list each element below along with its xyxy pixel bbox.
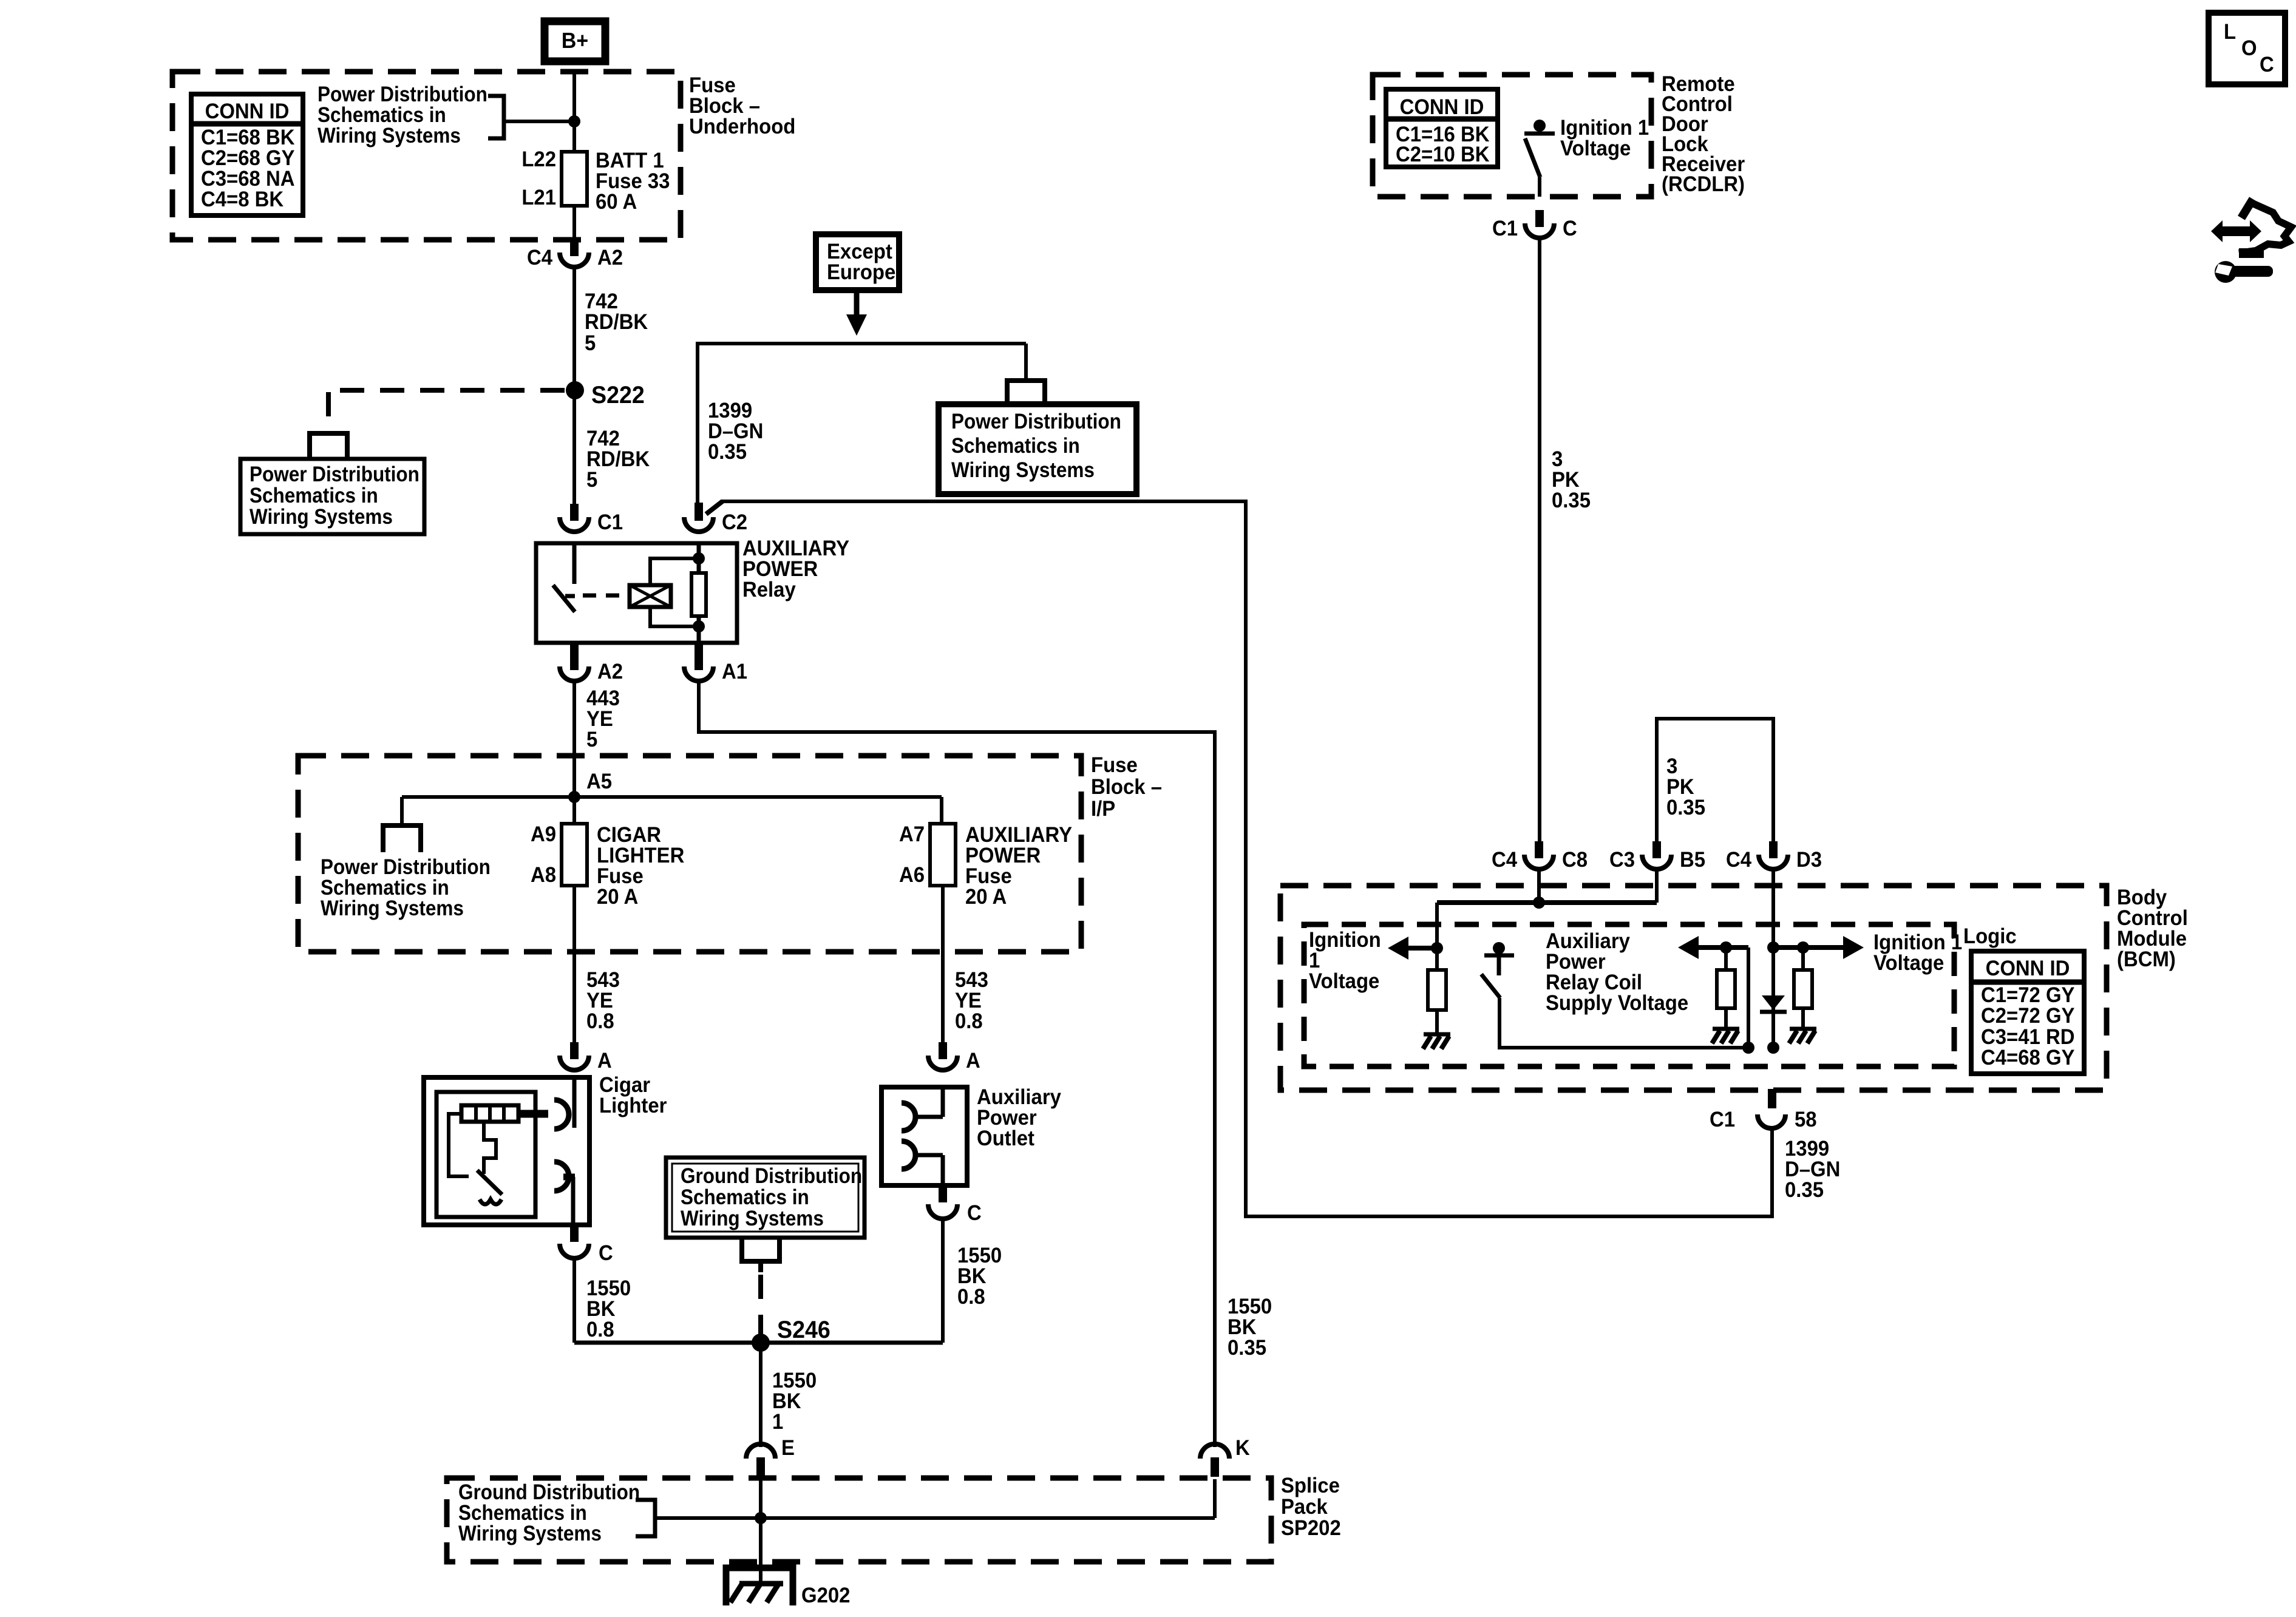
svg-text:Wiring Systems: Wiring Systems (458, 1522, 602, 1546)
BCM label (2117, 886, 2188, 971)
relay coil box (630, 585, 671, 607)
note power distribution box (mid) (939, 404, 1136, 494)
wire 3 PK loop (1657, 719, 1773, 845)
RCDLR label (1662, 72, 1745, 196)
BCM label ignition 1 voltage (left) (1309, 928, 1381, 993)
fuse CIGAR LIGHTER (531, 797, 684, 909)
svg-text:Supply Voltage: Supply Voltage (1546, 991, 1688, 1015)
label 1399 D-GN 0.35 (BCM) (1785, 1137, 1840, 1202)
svg-text:C: C (967, 1201, 982, 1225)
BCM resistor 3 (1794, 947, 1812, 1028)
BCM dashed box (1280, 886, 2107, 1090)
connector table CONN ID (underhood) (191, 94, 303, 215)
svg-text:Voltage: Voltage (1309, 969, 1379, 993)
connector table CONN ID (RCDLR) (1386, 89, 1498, 167)
connector K (1200, 1436, 1250, 1477)
BCM arrow coil supply (left) (1678, 936, 1754, 1054)
splice pack internal wires (655, 1479, 1215, 1524)
BCM ignition bus (1437, 870, 1657, 948)
BCM resistor 2 (1717, 947, 1735, 1028)
svg-text:C1: C1 (1710, 1108, 1735, 1131)
svg-text:A7: A7 (899, 822, 925, 846)
svg-text:Schematics in: Schematics in (951, 435, 1080, 458)
power node B+ (545, 21, 605, 61)
svg-text:Logic: Logic (1963, 924, 2017, 948)
wire 543 YE left (572, 886, 576, 1045)
dashed wire to S246 (758, 1275, 763, 1338)
svg-text:Splice: Splice (1281, 1474, 1340, 1497)
BCM logic label (1963, 924, 2017, 948)
svg-text:Schematics in: Schematics in (681, 1186, 809, 1210)
label 1550 BK 0.35 (1228, 1295, 1272, 1360)
svg-text:Fuse: Fuse (1091, 753, 1138, 777)
connector A (cigar lighter) (560, 1042, 612, 1073)
svg-text:A1: A1 (722, 660, 747, 683)
connector C1 58 (BCM) (1710, 1089, 1817, 1131)
svg-text:A9: A9 (531, 822, 556, 846)
wire 1550 BK left (572, 1258, 576, 1343)
note power distribution (underhood) (318, 83, 487, 148)
svg-text:Schematics in: Schematics in (250, 484, 378, 508)
connector C4 A2 (527, 239, 623, 269)
BCM ground 3 (1789, 1029, 1816, 1043)
label 742 RD/BK 5 lower (586, 427, 650, 492)
svg-text:C: C (599, 1241, 613, 1265)
svg-text:CONN ID: CONN ID (205, 100, 290, 123)
label 1550 BK 0.8 left (586, 1276, 631, 1341)
relay resistor (691, 543, 706, 643)
BCM ground 2 (1712, 1029, 1739, 1043)
svg-text:K: K (1235, 1436, 1250, 1460)
aux power outlet box (881, 1085, 1061, 1185)
svg-text:A: A (966, 1049, 980, 1073)
svg-text:C2=72 GY: C2=72 GY (1981, 1004, 2075, 1028)
location icon LOC (2209, 13, 2285, 84)
fuse AUXILIARY POWER (899, 797, 1072, 909)
label 1550 BK 0.8 right (957, 1244, 1002, 1309)
svg-text:S246: S246 (777, 1317, 830, 1343)
svg-text:I/P: I/P (1091, 797, 1115, 821)
svg-text:G202: G202 (801, 1584, 850, 1607)
svg-text:C2: C2 (722, 510, 747, 534)
BCM ground 1 (1423, 1034, 1450, 1049)
fuse BATT 1 Fuse 33 60A (562, 121, 670, 239)
label 443 YE 5 (586, 686, 620, 751)
splice pack label (1281, 1474, 1341, 1540)
svg-text:C4=68 GY: C4=68 GY (1981, 1046, 2075, 1070)
svg-text:C: C (1563, 217, 1577, 240)
svg-text:A: A (597, 1049, 612, 1073)
svg-text:Power Distribution: Power Distribution (951, 410, 1121, 434)
svg-text:S222: S222 (591, 382, 645, 408)
svg-text:C4: C4 (527, 246, 552, 269)
relay coil loop (650, 558, 699, 626)
svg-text:0.35: 0.35 (1228, 1336, 1266, 1360)
fuse block underhood label (689, 73, 795, 138)
relay label (742, 537, 849, 602)
note ground distribution box (mid) (666, 1158, 864, 1238)
svg-text:0.35: 0.35 (1666, 796, 1705, 819)
BCM label relay coil supply (1546, 929, 1688, 1015)
relay junction dots (693, 552, 705, 632)
connector C3 B5 (BCM) (1609, 841, 1705, 872)
svg-text:0.35: 0.35 (708, 440, 747, 464)
BCM label ignition 1 voltage (right) (1873, 931, 1962, 975)
svg-text:0.35: 0.35 (1552, 489, 1591, 512)
wire 1550 BK 1 (759, 1343, 763, 1447)
svg-text:Underhood: Underhood (689, 115, 795, 138)
connector C1 (relay) (560, 504, 623, 534)
BCM logic dashed box (1304, 924, 1954, 1066)
fuse block underhood dashed box (172, 72, 681, 240)
svg-text:L: L (2224, 20, 2236, 44)
bus A5 (402, 795, 942, 799)
svg-text:Pack: Pack (1281, 1495, 1328, 1519)
svg-text:E: E (781, 1436, 795, 1460)
svg-text:CONN ID: CONN ID (1400, 95, 1484, 119)
wire 3 PK (1538, 239, 1541, 845)
fuse block IP label (1091, 753, 1162, 821)
aux outlet internal wiring (902, 1087, 943, 1185)
cigar lighter internal wiring (449, 1077, 574, 1204)
relay box AUXILIARY POWER (536, 543, 737, 643)
junction A5 (568, 770, 612, 803)
svg-text:CONN ID: CONN ID (1986, 957, 2070, 980)
svg-text:A2: A2 (597, 660, 623, 683)
wire A1 to splice pack K (699, 682, 1215, 1447)
junction on B+ wire (568, 115, 580, 127)
label 3 PK 0.35 (1552, 447, 1591, 512)
label 742 RD/BK 5 upper (585, 290, 648, 355)
svg-text:Voltage: Voltage (1560, 137, 1631, 160)
connector A (aux outlet) (928, 1042, 980, 1073)
bracket under ground distribution box (742, 1239, 779, 1272)
label 543 YE 0.8 right (955, 968, 988, 1033)
svg-text:Voltage: Voltage (1873, 951, 1944, 975)
svg-text:A8: A8 (531, 863, 556, 887)
svg-text:Wiring Systems: Wiring Systems (250, 506, 393, 529)
RCDLR switch label (1560, 116, 1649, 160)
svg-text:C4: C4 (1726, 848, 1751, 872)
BCM ignition bus right (1767, 870, 1809, 1054)
svg-text:Wiring Systems: Wiring Systems (321, 897, 464, 921)
relay dashed link (583, 594, 627, 598)
bracket to note (underhood) (488, 96, 504, 138)
svg-text:Ground Distribution: Ground Distribution (681, 1165, 862, 1188)
svg-text:Block –: Block – (1091, 775, 1162, 799)
wire 443 YE (572, 682, 576, 796)
svg-text:1: 1 (772, 1410, 783, 1434)
wire 1399 D-GN horizontal (698, 344, 1026, 509)
wire C2 to BCM net (695, 501, 1772, 1216)
label 1550 BK 1 (772, 1369, 817, 1434)
svg-text:Outlet: Outlet (977, 1127, 1034, 1150)
svg-text:B5: B5 (1680, 848, 1705, 872)
connector A1 (relay out) (684, 643, 747, 683)
note power distribution (IP) (321, 856, 491, 921)
svg-text:A5: A5 (586, 770, 612, 793)
connector C4 D3 (BCM) (1726, 841, 1822, 872)
svg-text:C1: C1 (597, 510, 623, 534)
svg-text:Wiring Systems: Wiring Systems (681, 1207, 824, 1231)
svg-text:B+: B+ (562, 29, 588, 53)
note ground distribution (splice pack) (458, 1481, 640, 1546)
svg-text:Wiring Systems: Wiring Systems (318, 124, 461, 148)
BCM driver switch (1481, 942, 1748, 1048)
svg-text:(RCDLR): (RCDLR) (1662, 172, 1745, 196)
dashed branch from S222 (328, 390, 565, 426)
wire B+ to fuse block (572, 69, 576, 124)
svg-text:C2=10 BK: C2=10 BK (1396, 143, 1490, 166)
svg-text:C4=8 BK: C4=8 BK (201, 188, 284, 211)
splice pack dashed box (447, 1478, 1271, 1562)
RCDLR dashed box (1373, 75, 1651, 197)
svg-text:Power Distribution: Power Distribution (250, 463, 419, 487)
fuse BATT 1 labels L22 L21 (521, 147, 556, 209)
svg-text:C4: C4 (1492, 848, 1517, 872)
svg-text:20 A: 20 A (597, 885, 638, 909)
svg-text:(BCM): (BCM) (2117, 947, 2176, 971)
wire to G202 (759, 1518, 763, 1570)
svg-text:0.35: 0.35 (1785, 1178, 1824, 1202)
svg-text:C3: C3 (1609, 848, 1635, 872)
svg-text:58: 58 (1795, 1108, 1817, 1131)
svg-text:RD/BK: RD/BK (585, 310, 648, 334)
svg-text:Wiring Systems: Wiring Systems (951, 459, 1095, 483)
svg-text:A2: A2 (597, 246, 623, 269)
ground G202 (726, 1568, 850, 1607)
ground bus S246 (574, 1341, 943, 1345)
BCM arrow ignition 1 voltage (left) (1388, 937, 1443, 960)
wire note to B+ node (504, 120, 574, 123)
svg-text:Europe: Europe (827, 260, 895, 284)
connector C4 C8 (BCM) (1492, 841, 1588, 872)
fuse block IP dashed box (298, 756, 1081, 952)
svg-text:C1: C1 (1492, 217, 1518, 240)
wire 543 YE right (941, 886, 945, 1045)
svg-text:5: 5 (585, 331, 596, 355)
bracket ground distribution (splice pack) (636, 1500, 655, 1536)
svg-text:L22: L22 (521, 147, 556, 171)
cigar lighter box (424, 1073, 667, 1225)
svg-text:O: O (2241, 36, 2257, 60)
connector C (cigar lighter) (560, 1225, 613, 1265)
wire 742 RD/BK upper (572, 268, 576, 390)
label 543 YE 0.8 left (586, 968, 620, 1033)
svg-text:C: C (2260, 53, 2274, 76)
svg-text:Lighter: Lighter (599, 1094, 667, 1117)
cigar lighter terminal arcs (554, 1100, 575, 1225)
svg-text:5: 5 (586, 728, 597, 751)
relay switch contact (553, 543, 575, 612)
svg-text:Relay: Relay (742, 578, 796, 602)
connector C2 (relay) (684, 504, 747, 534)
connector E (746, 1436, 795, 1477)
splice S246 (752, 1317, 830, 1352)
connector C (aux outlet) (928, 1185, 982, 1225)
svg-text:0.8: 0.8 (957, 1285, 985, 1309)
splice S222 (566, 381, 645, 408)
svg-text:0.8: 0.8 (586, 1009, 614, 1033)
svg-text:60 A: 60 A (596, 190, 637, 214)
svg-text:0.8: 0.8 (586, 1318, 614, 1341)
connector table CONN ID (BCM) (1971, 951, 2084, 1074)
note box Except Europe (816, 234, 899, 290)
cigar lighter element (461, 1105, 518, 1122)
svg-text:0.8: 0.8 (955, 1009, 983, 1033)
svg-text:SP202: SP202 (1281, 1516, 1341, 1540)
note power distribution box (left) (240, 459, 424, 534)
svg-text:C8: C8 (1562, 848, 1588, 872)
svg-text:A6: A6 (899, 863, 925, 887)
svg-text:L21: L21 (521, 186, 556, 209)
connector C1 C (RCDLR) (1492, 210, 1577, 240)
wire 1550 BK right (941, 1218, 945, 1343)
service icon arrow wrench (2211, 199, 2291, 283)
bracket over power distribution note (IP) (383, 797, 421, 852)
svg-text:D3: D3 (1796, 848, 1822, 872)
connector A2 (relay out) (560, 643, 623, 683)
arrow from Except Europe (846, 290, 867, 336)
BCM diode (1760, 995, 1787, 1012)
BCM resistor 1 (1428, 948, 1446, 1033)
svg-text:5: 5 (586, 468, 597, 492)
bracket over power distribution box (mid) (1007, 344, 1045, 405)
bracket over power distribution box (310, 433, 347, 459)
label 3 PK 0.35 (loop) (1666, 754, 1705, 819)
label 1399 D-GN 0.35 (708, 399, 763, 464)
svg-text:20 A: 20 A (965, 885, 1007, 909)
wire 742 RD/BK lower (572, 390, 576, 507)
BCM arrow ignition 1 voltage (right) (1803, 936, 1864, 959)
RCDLR switch (1524, 120, 1555, 197)
